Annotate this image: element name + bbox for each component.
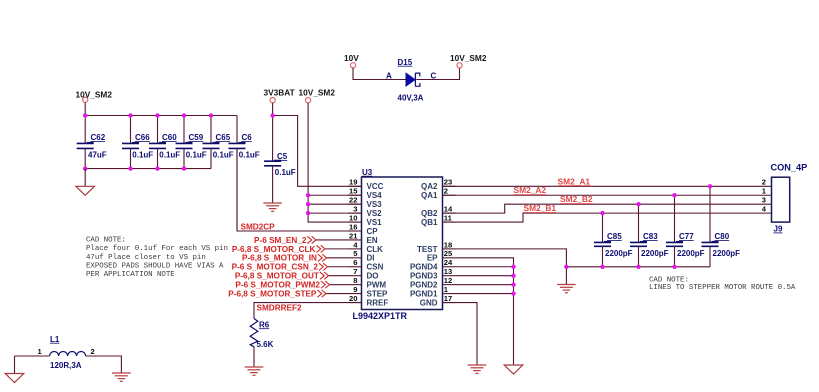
ground (power triangle) below L1 pin 1 (5, 374, 24, 383)
svg-text:SMD2CP: SMD2CP (241, 222, 276, 231)
junction bus tap (600, 265, 604, 269)
svg-text:R6: R6 (259, 320, 270, 329)
pin 17 (GND) (420, 294, 456, 308)
svg-text:J9: J9 (774, 225, 783, 234)
svg-text:SM2_A2: SM2_A2 (514, 185, 547, 195)
node 10V_SM2 power pin (at U3) (299, 88, 336, 103)
svg-text:2200pF: 2200pF (641, 249, 669, 258)
svg-text:0.1uF: 0.1uF (159, 151, 180, 160)
pin 3 (VS2) (348, 205, 382, 219)
wire PGND row 10 (456, 275, 514, 277)
pin 7 (DO) (348, 267, 379, 281)
svg-text:C66: C66 (135, 133, 150, 142)
junction VS2 tap (306, 211, 310, 215)
capacitor C66 0.1uF (122, 116, 153, 169)
svg-text:PGND2: PGND2 (410, 281, 438, 290)
wire QA1 to J9 pin 1 (net SM2_A2) (443, 194, 772, 196)
pin 9 (STEP) (348, 285, 388, 299)
wire bus to ground (565, 267, 567, 285)
svg-text:8: 8 (353, 276, 357, 285)
wire EP and PGND pins to ground triangle (456, 258, 514, 365)
svg-text:CSN: CSN (367, 263, 384, 272)
pin 21 (EN) (348, 231, 378, 245)
svg-text:P-6,8 S_MOTOR_STEP: P-6,8 S_MOTOR_STEP (228, 289, 317, 298)
svg-text:20: 20 (349, 294, 357, 303)
pin 20 (RREF) (348, 294, 388, 308)
svg-text:2200pF: 2200pF (677, 249, 705, 258)
svg-text:L9942XP1TR: L9942XP1TR (353, 311, 408, 321)
pin 22 (VS3) (348, 196, 382, 210)
svg-text:DI: DI (367, 254, 375, 263)
ground (earth) below L1 pin 2 (112, 373, 131, 381)
junction PGND junction (511, 282, 515, 286)
junction bottom bus x=157.5 (155, 166, 159, 170)
off-page connector P-6,8 S_MOTOR_CLK (232, 245, 348, 254)
svg-text:2200pF: 2200pF (713, 249, 741, 258)
svg-text:23: 23 (444, 178, 452, 187)
wire QB2 to J9 pin 3 (net SM2_B2) (443, 204, 772, 213)
svg-text:C80: C80 (715, 232, 730, 241)
svg-text:0.1uF: 0.1uF (275, 168, 296, 177)
svg-text:VS1: VS1 (367, 218, 383, 227)
svg-text:7: 7 (353, 267, 357, 276)
svg-text:2: 2 (91, 347, 95, 356)
svg-text:15: 15 (349, 187, 358, 196)
svg-text:P-6 S_MOTOR_PWM2: P-6 S_MOTOR_PWM2 (235, 281, 320, 290)
svg-text:5.6K: 5.6K (257, 340, 274, 349)
svg-text:PGND4: PGND4 (410, 263, 438, 272)
svg-text:PGND3: PGND3 (410, 272, 438, 281)
junction bottom bus x=184 (182, 166, 186, 170)
node 3V3BAT power pin (264, 88, 295, 103)
pin 16 (CP) (348, 222, 378, 236)
svg-text:C77: C77 (679, 232, 694, 241)
svg-text:47uF: 47uF (88, 151, 107, 160)
ground (earth) below TEST bus (557, 285, 576, 293)
ground (power triangle) below C62 bank (76, 186, 95, 195)
svg-text:A: A (386, 71, 392, 80)
pin 19 (VCC) (348, 178, 384, 192)
capacitor C77 2200pF (666, 195, 705, 267)
node 10V power pin (344, 53, 359, 68)
svg-text:QB2: QB2 (421, 209, 438, 218)
pin 14 (QB2) (421, 205, 455, 219)
off-page connector P-6,8 S_MOTOR_OUT (235, 272, 348, 281)
svg-text:6: 6 (353, 258, 357, 267)
svg-text:2200pF: 2200pF (605, 249, 633, 258)
capacitor C65 0.1uF (203, 116, 234, 169)
svg-text:STEP: STEP (367, 289, 389, 298)
svg-text:C85: C85 (607, 232, 622, 241)
pin 12 (PGND2) (410, 276, 456, 290)
svg-text:P-6,8 S_MOTOR_IN: P-6,8 S_MOTOR_IN (242, 254, 317, 263)
svg-text:40V,3A: 40V,3A (398, 93, 424, 102)
junction VS3 tap (306, 202, 310, 206)
off-page connector P-6 S_MOTOR_CSN_2 (232, 263, 348, 272)
pin 23 (QA2) (421, 178, 455, 192)
pin 4 (CLK) (348, 240, 383, 254)
pin 1 (PGND1) (410, 285, 456, 299)
pin 24 (PGND4) (410, 258, 456, 272)
junction TEST/bus (564, 265, 568, 269)
wire C6 to CP pin (net SMD2CP) (237, 148, 362, 231)
svg-text:PWM: PWM (367, 281, 387, 290)
op IC U3 L9942XP1TR body (353, 168, 443, 321)
svg-text:13: 13 (444, 267, 452, 276)
svg-text:DO: DO (367, 272, 379, 281)
svg-text:C83: C83 (643, 232, 658, 241)
svg-text:CON_4P: CON_4P (771, 162, 808, 172)
ground (earth) below C5 (263, 203, 282, 211)
svg-text:25: 25 (444, 249, 453, 258)
capacitor C5 0.1uF (264, 152, 296, 203)
svg-text:3: 3 (353, 205, 357, 214)
svg-text:22: 22 (349, 196, 357, 205)
ground (power triangle) below EP/PGND (504, 365, 523, 374)
junction PGND junction (511, 274, 515, 278)
svg-text:2: 2 (444, 187, 448, 196)
svg-text:U3: U3 (362, 168, 373, 177)
svg-text:21: 21 (349, 231, 358, 240)
junction C80 top tap (708, 184, 712, 188)
svg-text:0.1uF: 0.1uF (239, 151, 260, 160)
pin 15 (VS4) (348, 187, 382, 201)
svg-text:VS4: VS4 (367, 191, 383, 200)
svg-text:RREF: RREF (367, 298, 389, 307)
svg-text:VS2: VS2 (367, 209, 383, 218)
svg-text:C6: C6 (242, 133, 253, 142)
junction VS4 tap (306, 193, 310, 197)
svg-text:Place four 0.1uf For each VS p: Place four 0.1uf For each VS pin (86, 245, 228, 253)
note CAD NOTE (left) (86, 236, 228, 279)
svg-text:10V_SM2: 10V_SM2 (299, 88, 336, 98)
svg-text:C62: C62 (91, 133, 106, 142)
svg-text:SMDRREF2: SMDRREF2 (257, 303, 302, 312)
wire D15 cathode to 10V_SM2 (416, 68, 459, 80)
junction C83 top tap (636, 202, 640, 206)
junction 3V3BAT branch (270, 113, 274, 117)
wire 10V_SM2 rail down to VS1 (308, 103, 361, 222)
svg-text:CLK: CLK (367, 245, 384, 254)
svg-text:EXPOSED PADS SHOULD HAVE VIAS: EXPOSED PADS SHOULD HAVE VIAS A (86, 263, 224, 271)
svg-text:SM2_B2: SM2_B2 (560, 194, 593, 204)
note CAD NOTE (right) (649, 276, 796, 292)
svg-text:C60: C60 (162, 133, 177, 142)
off-page connector P-6,8 S_MOTOR_IN (242, 254, 348, 263)
ground (earth) below GND pin (468, 365, 487, 373)
svg-text:0.1uF: 0.1uF (132, 151, 153, 160)
junction top bus x=211 (209, 113, 213, 117)
wire to VS4 (308, 194, 361, 196)
pin 11 (QB1) (421, 213, 455, 227)
capacitor C6 0.1uF (229, 116, 260, 232)
capacitor C59 0.1uF (176, 116, 207, 169)
svg-text:QB1: QB1 (421, 218, 438, 227)
pin 5 (DI) (348, 249, 375, 263)
svg-text:3: 3 (762, 196, 766, 205)
svg-text:SM2_B1: SM2_B1 (524, 203, 557, 213)
svg-text:10: 10 (349, 213, 357, 222)
svg-text:12: 12 (444, 276, 452, 285)
svg-text:24: 24 (444, 258, 453, 267)
capacitor C62 47uF (77, 116, 107, 169)
svg-text:10V_SM2: 10V_SM2 (450, 53, 487, 63)
svg-text:PER APPLICATION NOTE: PER APPLICATION NOTE (86, 271, 175, 279)
off-page connector P-6 S_MOTOR_PWM2 (235, 281, 348, 290)
wire 10V to D15 anode (353, 68, 406, 80)
svg-text:P-6 SM_EN_2: P-6 SM_EN_2 (254, 236, 307, 245)
svg-text:2: 2 (762, 178, 766, 187)
wire RREF to R6 (net SMDRREF2) (254, 303, 362, 319)
wire GND pin 17 to ground (443, 303, 478, 365)
junction top bus x=85.2 (83, 113, 87, 117)
svg-text:9: 9 (353, 285, 357, 294)
svg-text:LINES TO STEPPER MOTOR ROUTE 0: LINES TO STEPPER MOTOR ROUTE 0.5A (649, 284, 796, 292)
svg-text:17: 17 (444, 294, 452, 303)
wire PGND row 12 (456, 293, 514, 295)
pin 8 (PWM) (348, 276, 386, 290)
junction bus tap (672, 265, 676, 269)
svg-text:19: 19 (349, 178, 357, 187)
svg-text:C59: C59 (189, 133, 204, 142)
wire top bus of capacitor bank (85, 115, 237, 117)
wire PGND row 11 (456, 284, 514, 286)
junction C85 top tap (600, 211, 604, 215)
wire 3V3BAT pin down to C5 (272, 103, 274, 161)
svg-text:VS3: VS3 (367, 200, 383, 209)
svg-text:D15: D15 (398, 58, 413, 67)
svg-text:GND: GND (420, 298, 438, 307)
svg-text:P-6,8 S_MOTOR_CLK: P-6,8 S_MOTOR_CLK (232, 245, 316, 254)
wire capacitor ground bus (566, 266, 710, 268)
svg-text:10V: 10V (344, 53, 359, 63)
svg-text:11: 11 (444, 213, 453, 222)
svg-text:C5: C5 (277, 152, 288, 161)
junction C77 top tap (672, 193, 676, 197)
ground (earth) below R6 (245, 367, 264, 375)
wire bottom bus of capacitor bank (85, 168, 211, 170)
svg-text:EP: EP (427, 254, 438, 263)
svg-text:SM2_A1: SM2_A1 (558, 176, 591, 186)
connector J9 CON_4P (771, 162, 808, 233)
capacitor C83 2200pF (630, 204, 669, 267)
wire TEST pin 18 to capacitor ground bus (456, 249, 567, 267)
svg-text:P-6,8 S_MOTOR_OUT: P-6,8 S_MOTOR_OUT (235, 272, 319, 281)
svg-text:16: 16 (349, 222, 357, 231)
node 10V_SM2 (left power pin) (76, 90, 113, 103)
svg-text:CP: CP (367, 227, 379, 236)
svg-text:18: 18 (444, 240, 452, 249)
svg-text:VCC: VCC (367, 182, 384, 191)
svg-text:47uf Place closer to VS pin: 47uf Place closer to VS pin (86, 254, 206, 262)
resistor R6 5.6K (250, 319, 273, 349)
node 10V_SM2 power pin (top right) (450, 53, 487, 68)
svg-text:CAD NOTE:: CAD NOTE: (86, 236, 126, 244)
junction PGND junction (511, 291, 515, 295)
pin 18 (TEST) (417, 240, 455, 254)
wire L1 pin 1 to ground triangle (14, 356, 16, 374)
pin 6 (CSN) (348, 258, 384, 272)
svg-text:L1: L1 (50, 335, 60, 344)
wire bottom bus to ground (84, 169, 86, 187)
junction PGND junction (511, 265, 515, 269)
junction top bus x=157.5 (155, 113, 159, 117)
wire R6 to ground (253, 347, 255, 367)
svg-text:0.1uF: 0.1uF (186, 151, 207, 160)
svg-text:10V_SM2: 10V_SM2 (76, 90, 113, 100)
wire 10V_SM2 pin to top bus (84, 102, 86, 115)
svg-text:QA2: QA2 (421, 182, 438, 191)
diode D15 (Schottky) (386, 58, 437, 103)
svg-text:0.1uF: 0.1uF (213, 151, 234, 160)
svg-text:120R,3A: 120R,3A (50, 361, 82, 370)
svg-text:C65: C65 (216, 133, 231, 142)
junction top bus x=130.5 (128, 113, 132, 117)
pin 2 (QA1) (421, 187, 455, 201)
pin 25 (EP) (427, 249, 456, 263)
pin 13 (PGND3) (410, 267, 456, 281)
svg-text:P-6 S_MOTOR_CSN_2: P-6 S_MOTOR_CSN_2 (232, 263, 319, 272)
junction top bus x=184 (182, 113, 186, 117)
junction bottom bus x=130.5 (128, 166, 132, 170)
wire to VS2 (308, 212, 361, 214)
capacitor C60 0.1uF (149, 116, 180, 169)
svg-text:14: 14 (444, 205, 453, 214)
wire 3V3BAT to VCC pin 19 (273, 116, 362, 187)
wire QB1 to J9 pin 4 (net SM2_B1) (443, 213, 772, 222)
svg-text:PGND1: PGND1 (410, 289, 438, 298)
wire QA2 to J9 pin 2 (net SM2_A1) (443, 185, 772, 187)
svg-text:3V3BAT: 3V3BAT (264, 88, 295, 98)
wire PGND row 9 (456, 266, 514, 268)
pin 10 (VS1) (348, 213, 382, 227)
capacitor C80 2200pF (702, 186, 741, 266)
inductor L1 120R,3A (15, 335, 95, 370)
capacitor C85 2200pF (594, 213, 633, 267)
off-page connector P-6,8 S_MOTOR_STEP (228, 289, 348, 298)
junction bus tap (636, 265, 640, 269)
wire to VS3 (308, 203, 361, 205)
svg-text:TEST: TEST (417, 245, 438, 254)
off-page connector P-6 SM_EN_2 (254, 236, 348, 245)
svg-text:EN: EN (367, 236, 378, 245)
junction bottom bus x=85.2 (83, 166, 87, 170)
wire L1 pin 2 to earth ground (86, 356, 122, 373)
svg-text:QA1: QA1 (421, 191, 438, 200)
